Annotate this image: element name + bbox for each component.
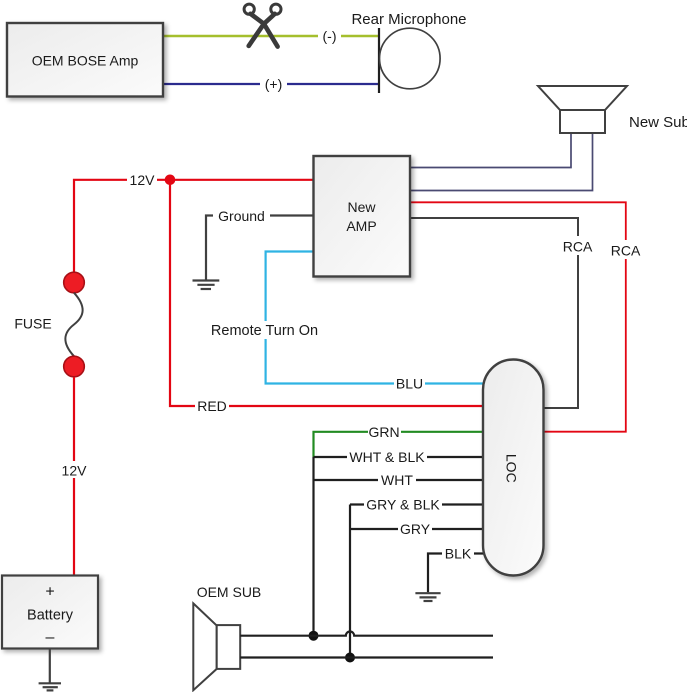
label GRY: [398, 521, 432, 538]
wire: OEM sub + wire (with hop over gray vertical): [240, 632, 493, 636]
wire: 12V red wire from fuse to New AMP: [74, 180, 314, 272]
svg-text:BLU: BLU: [396, 376, 423, 392]
wire: gray RCA from New AMP to LOC: [410, 218, 578, 408]
wire: WHT to LOC: [314, 479, 487, 481]
svg-text:Ground: Ground: [218, 208, 265, 224]
svg-text:New Sub: New Sub: [629, 114, 687, 131]
svg-text:(-): (-): [323, 28, 337, 44]
wire: rear speaker (-) green wire from OEM BOSE Amp to microphone: [163, 35, 379, 38]
svg-text:Rear Microphone: Rear Microphone: [351, 11, 466, 28]
svg-text:FUSE: FUSE: [14, 316, 51, 332]
wire: new sub speaker wire 1 (from New AMP): [410, 133, 571, 168]
svg-text:OEM BOSE Amp: OEM BOSE Amp: [32, 53, 139, 69]
ground symbol (New AMP ground): [193, 281, 220, 290]
svg-text:OEM SUB: OEM SUB: [197, 584, 262, 600]
rear microphone circle: [380, 28, 441, 89]
scissors (cut mark): [244, 4, 281, 47]
svg-text:WHT: WHT: [381, 472, 413, 488]
svg-text:–: –: [46, 629, 55, 646]
fuse: red terminal circle (top): [64, 272, 85, 293]
svg-text:RCA: RCA: [611, 242, 641, 258]
svg-text:GRY: GRY: [400, 521, 431, 537]
label GRN: [368, 423, 401, 440]
wire: remote turn on (blue) from New AMP to LOC: [266, 252, 486, 384]
New Sub speaker symbol: [538, 86, 627, 133]
label GRY & BLK: [364, 496, 442, 513]
wire: GRN wire to LOC: [314, 432, 487, 457]
label BLK: [442, 545, 474, 562]
label 12V (lower): [59, 461, 89, 478]
label BLU: [394, 375, 425, 392]
wire: ground wire from New AMP: [206, 216, 314, 281]
Battery box: [2, 576, 98, 649]
wire: RED power wire from junction to LOC: [170, 180, 486, 406]
label RCA (gray wire): [562, 236, 593, 255]
svg-text:GRN: GRN: [368, 424, 399, 440]
svg-text:RED: RED: [197, 398, 227, 414]
junction dot (red) at 12V tap: [165, 175, 176, 186]
OEM BOSE Amp box: [7, 23, 163, 97]
label WHT & BLK: [347, 449, 427, 466]
svg-text:AMP: AMP: [346, 218, 376, 234]
New AMP box: [314, 156, 411, 277]
wire: gray vertical from GRY wires to OEM sub - wire: [349, 505, 351, 658]
svg-text:Battery: Battery: [27, 608, 74, 624]
wire: new sub speaker wire 2 (from New AMP): [410, 133, 593, 191]
svg-text:WHT & BLK: WHT & BLK: [349, 449, 425, 465]
fuse S-curve element: [65, 293, 82, 356]
svg-text:RCA: RCA: [563, 238, 593, 254]
wire: GRY & BLK to LOC: [350, 503, 486, 505]
rear microphone terminal bar: [378, 28, 380, 93]
label (+) on blue wire: [260, 75, 287, 92]
svg-text:GRY & BLK: GRY & BLK: [366, 497, 440, 513]
wire: WHT & BLK to LOC: [314, 456, 487, 458]
svg-text:(+): (+): [265, 76, 283, 92]
wire: battery ground lead: [49, 649, 51, 684]
fuse: red terminal circle (bottom): [64, 356, 85, 377]
wire: OEM sub - wire: [240, 656, 493, 658]
ground symbol (battery): [39, 683, 61, 690]
wire: rear speaker (+) blue wire from OEM BOSE Amp to microphone: [163, 83, 379, 85]
label (-) on green wire: [318, 27, 341, 44]
svg-text:LOC: LOC: [503, 454, 519, 483]
svg-text:+: +: [45, 584, 54, 601]
wire: GRY to LOC: [350, 528, 486, 530]
label WHT: [378, 472, 416, 489]
ground symbol (LOC BLK): [415, 593, 440, 601]
wire: BLK ground wire from LOC: [428, 554, 486, 593]
label 12V (top): [127, 171, 157, 188]
svg-text:BLK: BLK: [445, 546, 472, 562]
label Remote Turn On: [208, 321, 321, 339]
svg-text:12V: 12V: [130, 172, 156, 188]
label RCA (red wire): [610, 240, 641, 259]
label RED: [195, 398, 229, 415]
wire: 12V red wire from fuse to battery: [73, 377, 75, 576]
svg-text:12V: 12V: [62, 462, 88, 478]
junction dot (black) on OEM sub + wire: [309, 631, 319, 641]
svg-text:Remote Turn On: Remote Turn On: [211, 323, 318, 339]
junction dot (black) on OEM sub - wire: [345, 653, 355, 663]
LOC line output converter (pill): [483, 360, 544, 576]
svg-text:New: New: [347, 199, 376, 215]
wire: red RCA from New AMP to LOC: [410, 202, 626, 431]
label Ground: [213, 207, 270, 224]
wire: black vertical from GRN corner to OEM sub + wire: [312, 457, 314, 636]
OEM SUB speaker symbol: [193, 603, 240, 690]
